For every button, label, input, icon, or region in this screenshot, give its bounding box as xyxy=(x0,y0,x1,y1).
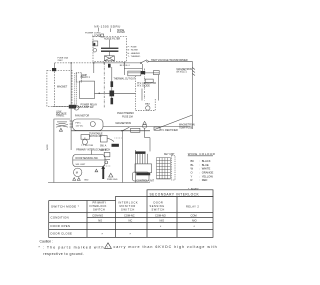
svg-text:SWITCH: SWITCH xyxy=(121,207,135,211)
svg-text:SWITCH: SWITCH xyxy=(152,207,165,211)
svg-text:FAN MOTOR: FAN MOTOR xyxy=(75,115,89,118)
svg-text:T : THERMO: T : THERMO xyxy=(128,56,141,58)
svg-text:*: * xyxy=(102,232,104,236)
svg-text:POWER CORD: POWER CORD xyxy=(85,33,101,35)
svg-text:N/O: N/O xyxy=(160,218,165,222)
svg-text:NOISE FILTER: NOISE FILTER xyxy=(104,37,120,40)
svg-text:BLACK: BLACK xyxy=(202,159,211,163)
svg-text:H.V. RECTIFIER: H.V. RECTIFIER xyxy=(160,129,178,132)
svg-text:COM: COM xyxy=(191,213,197,217)
svg-text:MAGNET: MAGNET xyxy=(57,86,68,89)
svg-text:SWITCH MODE *: SWITCH MODE * xyxy=(51,205,80,209)
svg-text:Y: Y xyxy=(191,174,193,178)
svg-text:BK W BL O: BK W BL O xyxy=(120,65,131,67)
svg-text:respective to ground.: respective to ground. xyxy=(43,252,84,256)
svg-text:O: O xyxy=(191,171,193,175)
svg-text:YELLOW: YELLOW xyxy=(202,174,214,178)
svg-text:HIGH VOLTAGE TRANSFORMER: HIGH VOLTAGE TRANSFORMER xyxy=(151,59,188,62)
svg-text::: : xyxy=(199,172,200,175)
svg-text:KEY UNIT: KEY UNIT xyxy=(164,154,175,156)
svg-text::: : xyxy=(199,175,200,178)
svg-text:SW. UNIT: SW. UNIT xyxy=(76,164,86,166)
svg-text:12V DC: 12V DC xyxy=(76,126,84,128)
svg-text:SWITCH: SWITCH xyxy=(93,207,105,211)
svg-text:*: * xyxy=(160,225,162,229)
svg-text::: : xyxy=(199,160,200,163)
svg-text:FM C: FM C xyxy=(76,123,82,125)
svg-text:NO: NO xyxy=(98,218,102,222)
svg-text::: : xyxy=(199,164,200,167)
svg-text:WIRE COLOUR: WIRE COLOUR xyxy=(188,152,216,156)
svg-text:MAGNETRON: MAGNETRON xyxy=(116,122,132,125)
svg-text::: : xyxy=(199,179,200,182)
svg-text:WHITE: WHITE xyxy=(202,167,211,171)
svg-text:Caution :: Caution : xyxy=(40,240,54,244)
svg-text:NOTE: NOTE xyxy=(47,144,49,150)
svg-text:NC: NC xyxy=(129,218,133,222)
svg-text:TRANS.: TRANS. xyxy=(56,115,65,118)
svg-text:DOOR CLOSE: DOOR CLOSE xyxy=(51,232,73,236)
svg-text:BK: BK xyxy=(191,159,195,163)
svg-text:OVEN THERMO: OVEN THERMO xyxy=(117,113,134,115)
svg-text:RELAY 1: RELAY 1 xyxy=(81,76,91,79)
svg-text:(H.VOLT): (H.VOLT) xyxy=(177,71,187,74)
svg-text:H.V. DIODE: H.V. DIODE xyxy=(137,85,150,88)
svg-text:FUSE 10A: FUSE 10A xyxy=(122,115,133,118)
svg-text:F : FUSE: F : FUSE xyxy=(128,46,138,48)
svg-text:T.T. MOTOR: T.T. MOTOR xyxy=(81,145,94,147)
svg-text:SW. B: SW. B xyxy=(100,150,107,152)
svg-text:COM-NO: COM-NO xyxy=(155,213,166,217)
svg-text:COM-NO: COM-NO xyxy=(92,213,103,217)
svg-text:COM-NC: COM-NC xyxy=(124,213,135,217)
svg-text:N : NOISE: N : NOISE xyxy=(128,50,139,52)
svg-text:THERMAL CUT-OUT: THERMAL CUT-OUT xyxy=(114,77,136,80)
svg-text:SW. A: SW. A xyxy=(100,145,107,148)
svg-text:BLUE: BLUE xyxy=(202,163,209,167)
svg-text:PWR GND: PWR GND xyxy=(107,179,118,181)
svg-text:carry more than 6KVDC high vol: carry more than 6KVDC high voltage with xyxy=(114,245,218,249)
svg-text:OVEN LAMP SW.: OVEN LAMP SW. xyxy=(75,106,94,109)
svg-text:MAG: MAG xyxy=(145,103,150,106)
svg-text:R: R xyxy=(191,178,193,182)
svg-text:CONDITION: CONDITION xyxy=(51,216,69,220)
svg-text:RELAY 2: RELAY 2 xyxy=(186,205,199,209)
svg-text::: : xyxy=(199,168,200,171)
svg-text:250V: 250V xyxy=(58,60,64,62)
svg-text:BL: BL xyxy=(191,163,195,167)
svg-text:N/O: N/O xyxy=(192,218,197,222)
svg-text:RED: RED xyxy=(202,178,208,182)
svg-text:M: M xyxy=(76,171,78,175)
svg-text:*: * xyxy=(194,225,196,229)
svg-text:W: W xyxy=(191,167,194,171)
svg-text:H : HEATER: H : HEATER xyxy=(128,52,141,55)
svg-text:DOOR SENSING SW.: DOOR SENSING SW. xyxy=(76,158,99,160)
svg-text:ORANGE: ORANGE xyxy=(202,171,214,175)
svg-text:GND: GND xyxy=(84,179,89,181)
svg-text:DOOR OPEN: DOOR OPEN xyxy=(51,224,71,228)
svg-text:* : The parts marked with: * : The parts marked with xyxy=(38,245,104,249)
svg-text:FILTER: FILTER xyxy=(117,32,125,34)
svg-text:SECONDARY INTERLOCK: SECONDARY INTERLOCK xyxy=(150,192,200,196)
svg-text:*: * xyxy=(130,232,132,236)
